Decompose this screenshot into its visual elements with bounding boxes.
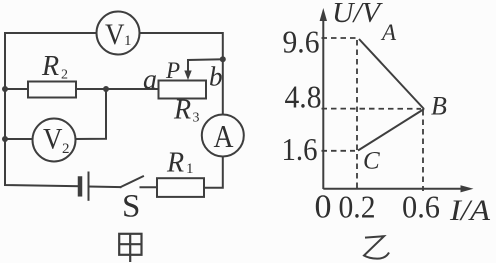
svg-text:S: S xyxy=(122,189,140,225)
svg-text:R: R xyxy=(173,95,191,126)
svg-text:3: 3 xyxy=(193,111,200,126)
svg-text:P: P xyxy=(165,58,180,83)
svg-text:A: A xyxy=(380,20,397,45)
svg-text:1.6: 1.6 xyxy=(282,131,318,167)
svg-text:1: 1 xyxy=(124,33,132,49)
svg-text:0.2: 0.2 xyxy=(339,189,376,225)
svg-text:0: 0 xyxy=(315,189,332,226)
svg-text:I/A: I/A xyxy=(449,194,491,227)
svg-text:B: B xyxy=(431,92,447,121)
svg-text:2: 2 xyxy=(62,141,70,157)
svg-text:b: b xyxy=(209,62,223,92)
svg-text:V: V xyxy=(43,123,63,156)
svg-text:0.6: 0.6 xyxy=(402,189,440,225)
svg-text:2: 2 xyxy=(61,68,68,83)
svg-text:C: C xyxy=(363,148,380,175)
svg-text:A: A xyxy=(214,118,234,154)
svg-text:V: V xyxy=(105,18,125,51)
svg-text:R: R xyxy=(41,51,59,82)
svg-text:a: a xyxy=(143,65,157,96)
svg-text:R: R xyxy=(166,148,184,179)
svg-text:U/V: U/V xyxy=(332,0,383,29)
svg-text:4.8: 4.8 xyxy=(285,79,322,115)
svg-text:9.6: 9.6 xyxy=(283,24,320,60)
svg-text:1: 1 xyxy=(186,161,194,177)
